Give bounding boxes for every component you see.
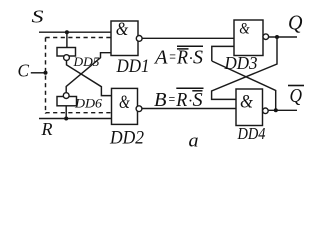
svg-text:DD4: DD4 xyxy=(237,124,266,143)
svg-text:=: = xyxy=(169,49,177,66)
svg-text:S: S xyxy=(32,7,44,27)
svg-text:DD2: DD2 xyxy=(109,128,144,149)
wire Q feedback to DD4 input xyxy=(212,37,277,99)
svg-text:·: · xyxy=(188,93,192,110)
svg-text:DD1: DD1 xyxy=(116,56,150,77)
wire dashed C line to DD1 xyxy=(46,37,112,39)
wire DD5 output diagonal to DD2 xyxy=(67,60,112,95)
node Qbar junction xyxy=(274,108,278,112)
label B formula xyxy=(154,89,203,111)
wire R input line xyxy=(39,118,112,120)
svg-text:Q: Q xyxy=(290,85,303,107)
svg-text:DD3: DD3 xyxy=(224,53,258,73)
label A formula overlines xyxy=(177,46,203,49)
node S tap junction xyxy=(65,30,69,34)
svg-text:DD5: DD5 xyxy=(72,55,99,69)
svg-text:=: = xyxy=(168,92,176,109)
wire S tap down to DD5 input xyxy=(66,32,68,47)
wire C stub xyxy=(31,72,46,74)
gate DD2 box xyxy=(112,88,138,124)
svg-text:Q: Q xyxy=(288,11,303,35)
svg-text:DD6: DD6 xyxy=(74,96,103,111)
svg-text:B: B xyxy=(154,89,167,111)
svg-text:&: & xyxy=(119,92,130,113)
gate DD1 box xyxy=(111,21,138,56)
svg-text:C: C xyxy=(18,61,30,81)
wire Qbar output line xyxy=(268,109,297,111)
wire S input line xyxy=(39,31,111,33)
svg-text:A: A xyxy=(153,46,168,68)
label Qbar overline xyxy=(288,85,304,87)
inverter DD6 box xyxy=(57,97,77,106)
gate DD3 box xyxy=(234,20,263,56)
svg-text:a: a xyxy=(189,131,199,152)
svg-text:S: S xyxy=(193,89,203,111)
label B formula overlines xyxy=(176,88,203,91)
inverter DD6 output bubble xyxy=(63,93,69,99)
svg-text:R: R xyxy=(41,119,53,139)
wire B: DD2 output to DD4 input xyxy=(142,108,236,110)
inverter DD5 output bubble xyxy=(64,55,70,61)
label A formula xyxy=(153,46,203,68)
wire dashed box left edge / C rail xyxy=(45,38,47,115)
gate DD4 output bubble xyxy=(263,108,269,114)
svg-text:R: R xyxy=(175,89,187,111)
svg-text:R: R xyxy=(176,46,188,68)
svg-text:S: S xyxy=(193,46,203,68)
wire Q output line xyxy=(269,36,297,38)
wire dashed C line to DD2 xyxy=(46,112,112,114)
gate DD3 output bubble xyxy=(263,34,269,40)
wire Qbar feedback diagonal to DD3 xyxy=(212,61,276,110)
wire DD6 output diagonal to DD1 xyxy=(66,53,111,93)
node C tap junction xyxy=(44,71,48,75)
node R tap junction xyxy=(64,117,68,121)
svg-text:&: & xyxy=(116,19,129,40)
node Q junction xyxy=(275,35,279,39)
inverter DD5 box xyxy=(57,48,76,57)
wire R tap up to DD6 input xyxy=(65,106,67,119)
svg-text:&: & xyxy=(239,21,250,38)
gate DD1 output bubble xyxy=(136,36,142,42)
wire DD3 lower input stub and hook xyxy=(212,46,234,61)
svg-text:&: & xyxy=(240,91,253,112)
wire A: DD1 output to DD3 input xyxy=(143,37,235,39)
gate DD2 output bubble xyxy=(136,106,142,112)
gate DD4 box xyxy=(236,89,263,126)
